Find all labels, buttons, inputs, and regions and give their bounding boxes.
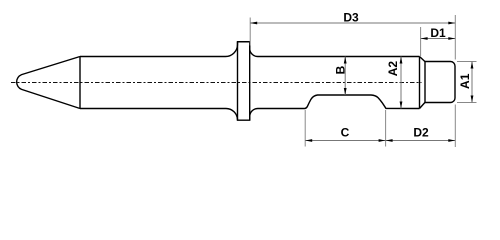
- arrowhead D1 right: [448, 37, 455, 40]
- arrowhead B top: [344, 57, 347, 64]
- extension line D3/D1 right upper (cap end): [454, 15, 456, 60]
- arrowhead C left: [305, 139, 312, 142]
- svg-text:D1: D1: [430, 26, 446, 40]
- arrowhead A2 top: [400, 57, 403, 64]
- dimension line D2: [386, 140, 456, 142]
- arrowhead A2 bottom: [400, 102, 403, 109]
- body bottom profile with collar fillets and relief flat: [80, 95, 420, 120]
- extension line C left (relief start): [304, 110, 306, 147]
- dimension line C: [305, 140, 385, 142]
- end cap outline: [425, 62, 455, 103]
- svg-text:D2: D2: [413, 126, 429, 140]
- arrowhead D3 right: [448, 22, 455, 25]
- dimension line D3: [250, 22, 455, 24]
- extension line D1 left (shank end face): [420, 27, 422, 56]
- arrowhead D2 right: [448, 139, 455, 142]
- centerline (dashed axis): [11, 82, 422, 84]
- svg-text:A1: A1: [458, 73, 472, 89]
- svg-text:C: C: [341, 126, 350, 140]
- extension line A1 top: [457, 61, 477, 63]
- extension line C/D2 middle (relief end): [385, 110, 387, 147]
- dimension line A1: [471, 62, 473, 103]
- arrowhead D2 left: [386, 139, 393, 142]
- conical tip with rounded point: [17, 57, 80, 109]
- cone-body junction line: [79, 57, 81, 109]
- shank end face: [419, 57, 421, 109]
- body top profile with collar fillets: [80, 42, 420, 57]
- svg-text:D3: D3: [343, 11, 359, 25]
- svg-text:B: B: [334, 65, 348, 74]
- chamfer edge bottom: [420, 103, 425, 109]
- arrowhead A1 bottom: [471, 96, 474, 103]
- dimension line B: [344, 57, 346, 96]
- arrowhead A1 top: [471, 62, 474, 69]
- arrowhead D3 left: [250, 22, 257, 25]
- dimension line D1: [421, 38, 456, 40]
- dimension line A2: [400, 57, 402, 109]
- extension line A1 bottom: [457, 102, 477, 104]
- extension line D2 right lower (cap end): [454, 105, 456, 148]
- collar right face: [249, 42, 251, 120]
- arrowhead C right: [379, 139, 386, 142]
- chamfer edge top: [420, 57, 425, 62]
- arrowhead B bottom: [344, 88, 347, 95]
- arrowhead D1 left: [421, 37, 428, 40]
- extension line D3 left (collar right face): [249, 18, 251, 46]
- collar left face: [237, 42, 239, 120]
- svg-text:A2: A2: [386, 61, 400, 77]
